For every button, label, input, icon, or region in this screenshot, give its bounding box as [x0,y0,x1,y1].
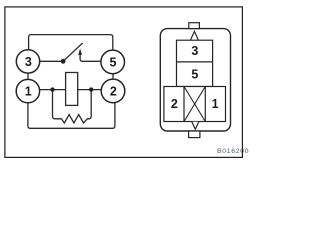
divider between pin 3 and pin 5 [177,61,213,63]
svg-text:2: 2 [171,97,178,111]
terminal 1 [16,79,39,102]
relay connector body outline [160,29,230,131]
wire stub terminal 5 to terminal 2 [112,73,114,80]
svg-text:1: 1 [25,85,32,99]
svg-text:3: 3 [25,55,32,69]
svg-text:5: 5 [110,56,117,70]
svg-text:1: 1 [212,97,219,111]
connector bottom notch triangle [192,122,199,130]
connector bottom row for pins 2 and 1 [164,87,226,122]
svg-text:3: 3 [191,44,198,58]
wire stub terminal 3 to terminal 1 [27,72,29,80]
resistor R (parallel with coil) [53,91,92,123]
svg-text:B016200: B016200 [217,148,249,155]
wire bottom rail from terminal 1 to terminal 2 [28,102,115,128]
wire from switch arrow to terminal 5 [80,54,102,61]
keyway cell left line [183,87,185,122]
svg-text:2: 2 [110,85,117,99]
terminal 2 [101,79,125,103]
keyway diagonal 2 [184,87,205,122]
wire from terminal 1 to terminal 2 through coil [39,89,102,91]
terminal 5 [101,50,125,74]
node junction dot right [89,87,93,91]
keyway diagonal 1 [184,87,205,122]
connector top notch triangle [191,31,199,39]
switch actuation arrowhead [78,49,82,55]
switch blade S [63,43,83,61]
svg-text:5: 5 [191,68,198,82]
terminal 3 [16,50,39,73]
wire from terminal 3 to switch pivot [39,60,61,62]
connector pin column for 3 and 5 [177,40,213,86]
node junction dot left [50,87,54,91]
coil L1 [66,73,78,106]
border frame [5,7,243,158]
wire top rail from terminal 3 to terminal 5 [29,35,113,51]
connector top tab [189,23,200,29]
keyway cell right line [204,87,206,122]
connector bottom tab [189,131,200,138]
switch pivot junction dot [61,59,66,64]
